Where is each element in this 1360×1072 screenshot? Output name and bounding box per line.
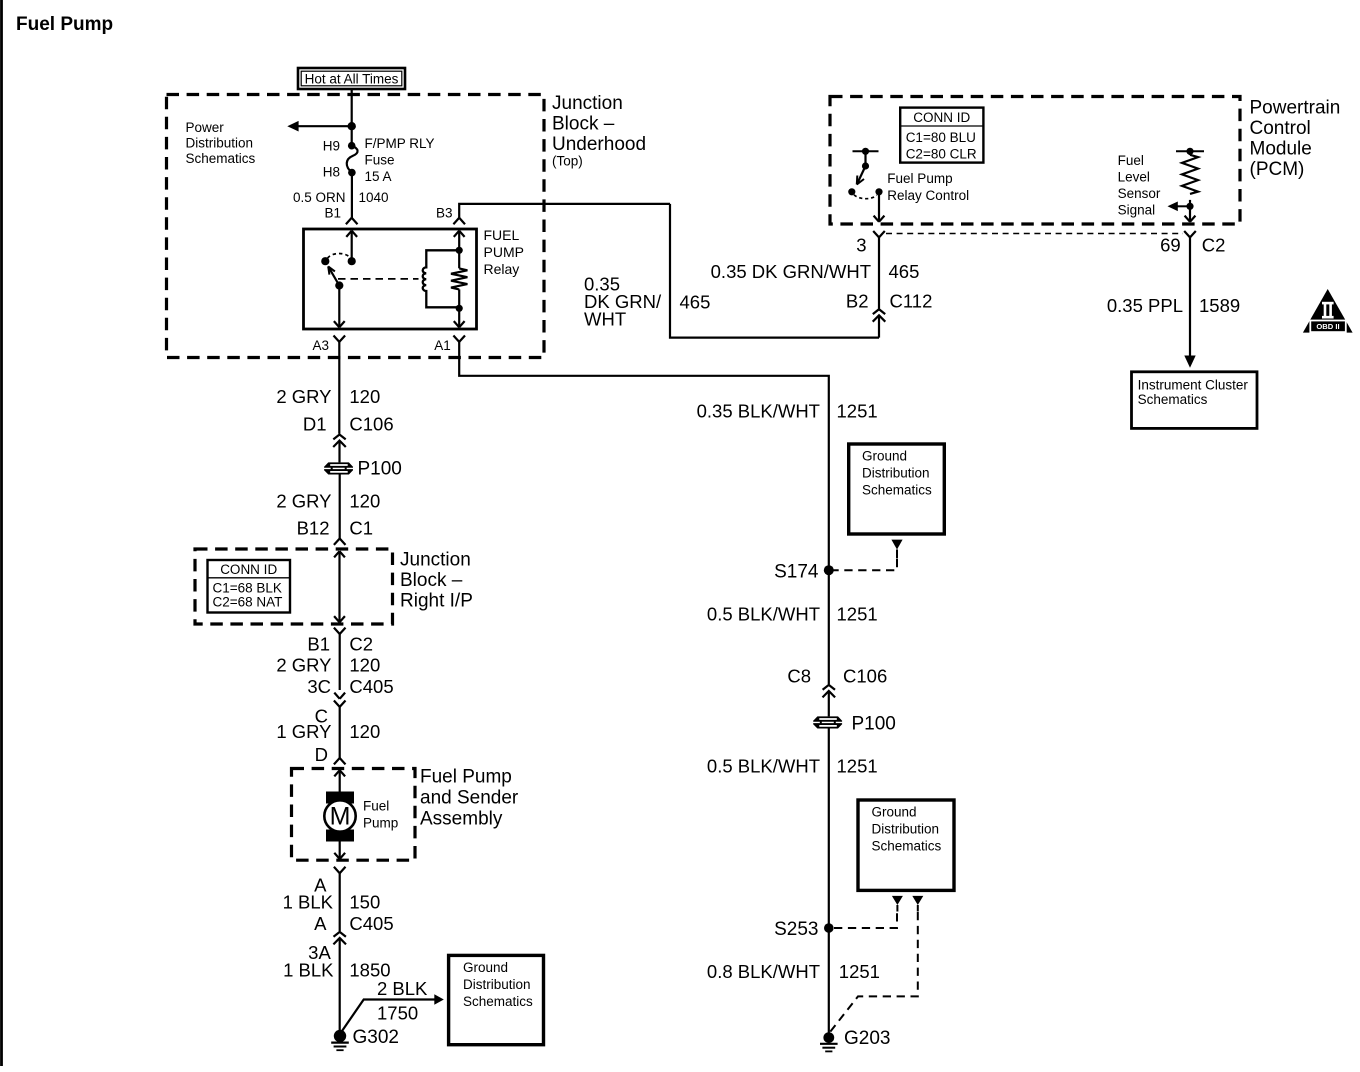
svg-text:Block –: Block – [552, 114, 615, 135]
relay pin B1 arrow [351, 231, 353, 261]
svg-text:A1: A1 [434, 338, 451, 353]
relay switch blade [328, 266, 339, 285]
svg-text:120: 120 [349, 655, 380, 676]
PCM relay control switch [853, 150, 879, 152]
connector D fork [334, 758, 340, 764]
ground G203 [823, 1032, 834, 1043]
svg-text:C2=68 NAT: C2=68 NAT [213, 594, 283, 609]
connector pin 3 [873, 231, 879, 237]
splice P100 left [324, 462, 353, 467]
svg-text:C1=68 BLK: C1=68 BLK [213, 580, 282, 595]
svg-text:1040: 1040 [359, 190, 389, 205]
svg-text:A3: A3 [312, 338, 329, 353]
connector C106 chevrons [333, 435, 345, 440]
svg-text:CONN ID: CONN ID [220, 562, 277, 577]
svg-text:Schematics: Schematics [872, 839, 942, 854]
svg-text:H8: H8 [323, 164, 340, 179]
svg-text:1 GRY: 1 GRY [276, 721, 331, 742]
relay switch contact [321, 257, 329, 265]
connector 3C C405 [334, 693, 339, 699]
svg-text:C405: C405 [349, 676, 393, 697]
junction block underhood dashed box [167, 95, 545, 358]
connector B1 C2 fork [334, 628, 340, 634]
page left border [0, 0, 3, 1066]
svg-text:2 BLK: 2 BLK [377, 978, 428, 999]
svg-text:Distribution: Distribution [463, 977, 531, 992]
svg-text:Hot at All Times: Hot at All Times [305, 72, 399, 87]
svg-text:(Top): (Top) [552, 154, 583, 169]
svg-text:Assembly: Assembly [420, 809, 503, 830]
connector B2 C112 chevrons [873, 309, 885, 314]
svg-text:1750: 1750 [377, 1003, 418, 1024]
svg-text:S174: S174 [774, 561, 819, 582]
svg-text:Level: Level [1118, 170, 1150, 185]
svg-text:C112: C112 [890, 291, 933, 312]
svg-text:2 GRY: 2 GRY [276, 386, 331, 407]
svg-text:Fuel: Fuel [1118, 153, 1144, 168]
svg-text:A: A [314, 913, 327, 934]
wire pin3 to C112 [878, 237, 880, 308]
wire pin69 down [1189, 237, 1191, 355]
svg-text:120: 120 [349, 386, 380, 407]
svg-text:Ground: Ground [872, 805, 917, 820]
svg-text:Distribution: Distribution [862, 466, 930, 481]
svg-text:C106: C106 [349, 414, 393, 435]
ground distribution schematics box right-2 [858, 800, 954, 890]
svg-text:C2: C2 [1202, 235, 1226, 256]
wire to power distribution [298, 125, 352, 127]
connector A C405 chevrons [334, 932, 346, 937]
svg-text:Junction: Junction [552, 93, 623, 114]
svg-text:FUEL: FUEL [484, 227, 520, 243]
svg-text:C106: C106 [843, 665, 887, 686]
svg-text:Schematics: Schematics [186, 151, 256, 166]
svg-text:3: 3 [856, 235, 866, 256]
svg-text:2 GRY: 2 GRY [276, 655, 331, 676]
hot at all times box [298, 68, 405, 89]
svg-text:H9: H9 [323, 138, 340, 153]
svg-text:0.5 BLK/WHT: 0.5 BLK/WHT [707, 603, 820, 624]
svg-text:Block –: Block – [400, 570, 463, 591]
svg-text:0.8 BLK/WHT: 0.8 BLK/WHT [707, 961, 820, 982]
relay resistor [458, 231, 460, 268]
splice S253 [824, 923, 834, 933]
svg-text:M: M [330, 803, 351, 831]
wire below P100 right [828, 729, 830, 929]
svg-text:and Sender: and Sender [420, 788, 519, 809]
splice P100 right [813, 716, 842, 721]
svg-text:Fuel Pump: Fuel Pump [887, 171, 952, 186]
svg-text:Schematics: Schematics [463, 994, 533, 1009]
svg-text:Distribution: Distribution [186, 136, 254, 151]
fuel pump assembly dashed box [292, 769, 416, 861]
svg-text:P100: P100 [852, 714, 896, 735]
connector A fork below pump [334, 867, 340, 873]
svg-text:C2=80 CLR: C2=80 CLR [906, 146, 977, 161]
svg-text:0.35 DK GRN/WHT: 0.35 DK GRN/WHT [711, 261, 871, 282]
OBD II symbol [1303, 289, 1353, 333]
arrow pair below ground box [892, 896, 903, 905]
fuel pump motor [326, 792, 354, 804]
wire C112 to B3 horizontals [670, 204, 879, 338]
svg-text:Power: Power [186, 120, 225, 135]
svg-text:Underhood: Underhood [552, 134, 646, 155]
svg-text:Signal: Signal [1118, 203, 1156, 218]
wire S174 down [828, 570, 830, 684]
svg-text:CONN ID: CONN ID [913, 110, 970, 125]
svg-text:B1: B1 [307, 634, 330, 655]
svg-text:69: 69 [1160, 235, 1181, 256]
svg-text:Pump: Pump [363, 816, 398, 831]
fuse F/PMP RLY 15A [348, 142, 356, 150]
wire battery feed [351, 89, 353, 146]
svg-text:G302: G302 [353, 1027, 399, 1048]
connector pin 69 [1184, 231, 1190, 237]
conn id box JB [208, 560, 291, 613]
svg-text:B2: B2 [846, 291, 869, 312]
svg-text:3C: 3C [307, 676, 331, 697]
svg-text:B12: B12 [297, 517, 330, 538]
dashed G203 to box [830, 912, 918, 1032]
pump pin bottom arrow [339, 840, 341, 859]
svg-text:Junction: Junction [400, 550, 471, 571]
svg-text:C1=80 BLU: C1=80 BLU [906, 130, 976, 145]
dashed S253 to box [834, 912, 897, 928]
svg-text:Fuel: Fuel [363, 799, 389, 814]
svg-text:WHT: WHT [584, 309, 626, 330]
svg-text:D1: D1 [303, 414, 327, 435]
svg-text:Instrument Cluster: Instrument Cluster [1138, 377, 1249, 392]
svg-text:1251: 1251 [837, 603, 878, 624]
svg-text:Control: Control [1250, 118, 1311, 139]
svg-text:Schematics: Schematics [862, 483, 932, 498]
conn id box PCM [900, 108, 983, 163]
svg-text:Relay Control: Relay Control [887, 188, 969, 203]
svg-text:1251: 1251 [837, 401, 878, 422]
ground distribution schematics box right-1 [849, 444, 945, 534]
svg-text:C8: C8 [787, 665, 811, 686]
svg-text:1 BLK: 1 BLK [283, 892, 334, 913]
svg-text:Sensor: Sensor [1118, 186, 1161, 201]
svg-text:150: 150 [349, 892, 380, 913]
svg-text:Ground: Ground [463, 960, 508, 975]
svg-text:P100: P100 [358, 459, 402, 480]
svg-text:0.35 PPL: 0.35 PPL [1107, 295, 1183, 316]
svg-text:B3: B3 [436, 205, 453, 220]
svg-text:PUMP: PUMP [484, 244, 524, 260]
svg-text:Ground: Ground [862, 449, 907, 464]
svg-text:465: 465 [680, 292, 711, 313]
pump pin top arrow [339, 771, 341, 793]
JB internal pin wire [338, 552, 340, 623]
instrument cluster schematics box [1132, 372, 1258, 429]
PCM connector line dashed [886, 233, 1183, 235]
PCM dashed box [830, 97, 1240, 225]
svg-text:C405: C405 [349, 913, 393, 934]
svg-text:Powertrain: Powertrain [1250, 98, 1341, 119]
svg-text:Right I/P: Right I/P [400, 591, 473, 612]
svg-text:1589: 1589 [1199, 295, 1240, 316]
svg-text:120: 120 [349, 721, 380, 742]
ground distribution schematics box bottom-left [449, 955, 544, 1044]
svg-text:Fuel Pump: Fuel Pump [16, 14, 113, 35]
svg-text:15 A: 15 A [365, 169, 392, 184]
wire branch 2 BLK 1750 [341, 1000, 434, 1033]
ground G302 [334, 1030, 346, 1042]
svg-text:S253: S253 [774, 919, 818, 940]
svg-text:F/PMP RLY: F/PMP RLY [365, 136, 435, 151]
node power tap [348, 122, 356, 130]
svg-text:Relay: Relay [484, 261, 520, 277]
svg-text:OBD II: OBD II [1316, 322, 1339, 331]
svg-text:C1: C1 [349, 517, 373, 538]
wire A1 to BLK/WHT [459, 342, 829, 570]
relay coil [423, 250, 460, 307]
svg-text:(PCM): (PCM) [1250, 159, 1305, 180]
svg-text:Distribution: Distribution [872, 822, 940, 837]
svg-text:0.5 ORN: 0.5 ORN [293, 190, 346, 205]
svg-text:2 GRY: 2 GRY [276, 491, 331, 512]
svg-text:1251: 1251 [839, 961, 880, 982]
svg-text:465: 465 [889, 261, 920, 282]
relay switch travel arc [328, 254, 351, 259]
splice S174 [824, 565, 834, 575]
wire S253 to G203 [828, 928, 830, 1033]
wire below P100 [339, 475, 341, 539]
svg-text:1 BLK: 1 BLK [283, 960, 334, 981]
svg-text:0.35 BLK/WHT: 0.35 BLK/WHT [697, 401, 820, 422]
svg-text:B1: B1 [324, 205, 341, 220]
PCM fuel level resistor [1176, 150, 1204, 152]
svg-text:Fuse: Fuse [365, 153, 395, 168]
relay switch to A3 [338, 286, 340, 328]
svg-text:Module: Module [1250, 139, 1312, 160]
relay FUEL PUMP box [304, 229, 477, 329]
svg-text:0.5 BLK/WHT: 0.5 BLK/WHT [707, 755, 820, 776]
svg-text:C2: C2 [349, 634, 373, 655]
arrow from S174 to ground box [891, 540, 902, 550]
svg-text:120: 120 [349, 491, 380, 512]
wire A3 down [338, 342, 340, 434]
svg-text:D: D [315, 744, 328, 765]
connector B12 fork [334, 539, 340, 545]
svg-text:Fuel Pump: Fuel Pump [420, 767, 512, 788]
relay dashed link [338, 278, 419, 280]
arrow into instrument cluster [1184, 356, 1195, 368]
junction block right IP dashed box [195, 549, 393, 624]
svg-text:G203: G203 [844, 1028, 890, 1049]
svg-text:Schematics: Schematics [1138, 392, 1208, 407]
svg-text:1251: 1251 [837, 755, 878, 776]
connector C8 C106 chevrons [823, 685, 835, 690]
